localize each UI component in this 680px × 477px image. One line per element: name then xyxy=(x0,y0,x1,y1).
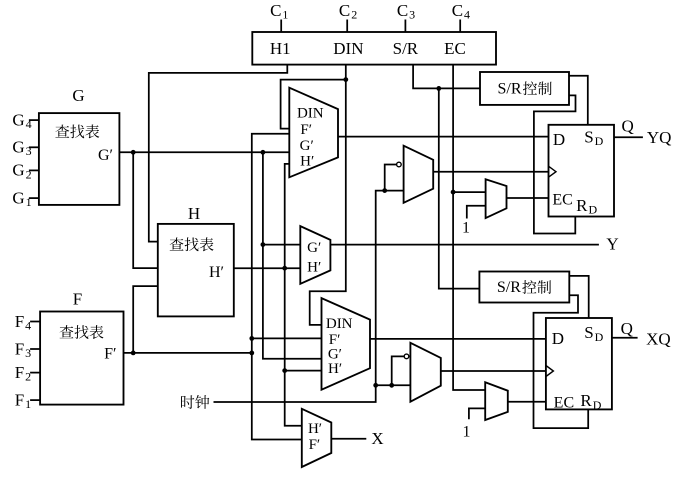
svg-text:S: S xyxy=(584,323,593,342)
svg-text:H′: H′ xyxy=(307,259,321,275)
svg-text:1: 1 xyxy=(26,195,32,209)
junction clock lower xyxy=(373,383,378,388)
mux M7 EC upper xyxy=(486,179,507,218)
wire C1 stem xyxy=(280,20,282,33)
svg-text:H: H xyxy=(188,204,200,223)
lookup table H xyxy=(158,224,234,317)
junction clock upper xyxy=(382,188,387,193)
svg-text:H′: H′ xyxy=(328,361,342,377)
wire M5 out xyxy=(433,171,548,173)
wire Fprime main xyxy=(124,352,252,354)
junction Fprime A xyxy=(131,351,136,356)
svg-text:Y: Y xyxy=(606,235,618,254)
svg-text:D: D xyxy=(552,329,564,348)
wire G2 tick xyxy=(29,169,39,171)
junction Gprime B xyxy=(261,150,266,155)
svg-text:G′: G′ xyxy=(98,147,113,164)
lookup table F xyxy=(40,312,123,405)
wire SD set lower xyxy=(569,276,588,318)
label F lookup cjk xyxy=(60,325,74,338)
svg-text:D: D xyxy=(553,130,565,149)
svg-text:D: D xyxy=(595,134,604,148)
label clock cjk xyxy=(181,395,194,409)
wire EC to upper mux xyxy=(453,191,486,193)
wire EC riser xyxy=(453,65,485,390)
junction Fprime B xyxy=(249,351,254,356)
junction Gprime A xyxy=(131,150,136,155)
svg-text:EC: EC xyxy=(554,394,574,411)
wire Hprime to lower mux xyxy=(285,370,322,372)
wire M8 one input xyxy=(469,408,485,419)
clock triangle FF2 xyxy=(546,366,554,377)
svg-text:C: C xyxy=(270,1,281,20)
wire M6 out xyxy=(441,370,546,372)
wire M1 out to D xyxy=(338,136,549,138)
svg-text:F: F xyxy=(15,363,24,382)
wire DIN riser xyxy=(310,65,346,325)
wire G4 tick xyxy=(29,119,39,121)
svg-text:R: R xyxy=(576,196,588,215)
wire DIN to top mux xyxy=(281,80,346,129)
svg-text:S/R: S/R xyxy=(497,80,521,97)
svg-text:DIN: DIN xyxy=(297,105,324,121)
svg-text:4: 4 xyxy=(26,117,32,131)
junction clock lower2 xyxy=(389,383,394,388)
svg-text:R: R xyxy=(580,391,592,410)
mux M6 clock lower xyxy=(410,343,440,402)
svg-text:F′: F′ xyxy=(104,346,116,363)
S/R control box lower xyxy=(479,272,569,303)
wire G3 tick xyxy=(29,146,39,148)
flip-flop FF1 YQ xyxy=(549,125,615,217)
wire F4 tick xyxy=(30,321,40,323)
junction Hprime B xyxy=(282,368,287,373)
junction Gprime C xyxy=(261,242,266,247)
wire C3 stem xyxy=(404,20,406,33)
wire RD reset upper xyxy=(534,95,576,233)
svg-text:G: G xyxy=(12,188,24,207)
svg-text:F: F xyxy=(15,390,24,409)
wire M3 out to D xyxy=(370,338,546,340)
svg-text:F: F xyxy=(15,312,24,331)
wire C2 stem xyxy=(346,20,348,33)
inverter bubble upper xyxy=(397,162,402,167)
wire Y out xyxy=(330,244,599,246)
wire F2 tick xyxy=(30,372,40,374)
junction S/R xyxy=(436,86,441,91)
wire clock lower inverted xyxy=(392,356,405,385)
svg-text:F: F xyxy=(73,289,82,308)
svg-text:H1: H1 xyxy=(270,39,291,58)
svg-text:S/R: S/R xyxy=(393,39,419,58)
svg-text:S/R: S/R xyxy=(497,279,521,296)
svg-text:D: D xyxy=(595,330,604,344)
wire M7 out xyxy=(507,197,549,199)
lookup table G xyxy=(39,113,120,205)
svg-text:3: 3 xyxy=(25,346,31,360)
wire Gprime to H table xyxy=(133,152,158,268)
wire SD set upper xyxy=(569,76,588,125)
wire FF1 Q out xyxy=(614,136,643,138)
wire Fprime riser xyxy=(252,134,302,440)
mux M8 EC lower xyxy=(485,382,508,420)
svg-text:2: 2 xyxy=(25,370,31,384)
svg-text:G: G xyxy=(12,110,24,129)
svg-text:G: G xyxy=(12,138,24,157)
inverter bubble lower xyxy=(404,354,409,359)
svg-text:C: C xyxy=(339,1,350,20)
input select box xyxy=(252,32,496,65)
wire Fprime to H table xyxy=(133,286,158,353)
wire clock lower input xyxy=(376,384,411,386)
junction Hprime A xyxy=(282,266,287,271)
mux M2 G/H for Y xyxy=(300,226,330,284)
svg-text:F: F xyxy=(15,339,24,358)
svg-text:EC: EC xyxy=(552,192,572,209)
svg-text:S: S xyxy=(584,128,593,147)
wire Hprime main xyxy=(234,267,300,269)
wire Gprime main xyxy=(119,151,289,153)
svg-text:1: 1 xyxy=(462,219,470,236)
svg-text:C: C xyxy=(452,1,463,20)
wire X out xyxy=(331,438,366,440)
wire M8 out xyxy=(508,401,546,403)
wire F3 tick xyxy=(30,348,40,350)
svg-text:DIN: DIN xyxy=(333,39,363,58)
svg-text:H′: H′ xyxy=(209,264,224,281)
junction Fprime C xyxy=(249,336,254,341)
S/R control box upper xyxy=(480,72,569,105)
svg-text:4: 4 xyxy=(25,318,31,332)
svg-text:G′: G′ xyxy=(307,240,321,256)
svg-text:D: D xyxy=(589,202,598,216)
svg-text:G: G xyxy=(72,86,84,105)
svg-text:H′: H′ xyxy=(300,154,314,170)
svg-text:1: 1 xyxy=(282,7,288,21)
svg-text:XQ: XQ xyxy=(646,329,671,348)
svg-text:3: 3 xyxy=(409,7,415,21)
wire M7 one input xyxy=(467,206,486,219)
svg-text:3: 3 xyxy=(26,144,32,158)
junction EC upper xyxy=(451,190,456,195)
wire H1 net xyxy=(149,65,287,242)
wire Gprime riser xyxy=(263,152,322,358)
svg-text:G: G xyxy=(12,161,24,180)
svg-text:F′: F′ xyxy=(309,437,321,453)
wire G1 tick xyxy=(29,197,39,199)
mux M4 H/F for X xyxy=(302,409,332,467)
wire Fprime to lower mux xyxy=(252,337,322,339)
wire C4 stem xyxy=(459,20,461,33)
svg-text:2: 2 xyxy=(351,7,357,21)
mux M5 clock upper xyxy=(404,146,434,203)
wire RD reset lower xyxy=(534,295,589,428)
label H lookup cjk xyxy=(170,237,184,250)
svg-text:D: D xyxy=(593,398,602,412)
svg-text:EC: EC xyxy=(444,39,466,58)
svg-text:C: C xyxy=(397,1,408,20)
wire Gprime to Y mux xyxy=(263,244,300,246)
mux M1 DIN/F/G/H upper xyxy=(289,88,338,178)
svg-text:Q: Q xyxy=(622,116,634,135)
svg-text:2: 2 xyxy=(26,167,32,181)
svg-text:G′: G′ xyxy=(300,138,314,154)
svg-text:4: 4 xyxy=(464,7,470,21)
wire S/R to control xyxy=(413,65,480,89)
wire S/R riser xyxy=(439,88,480,288)
svg-text:DIN: DIN xyxy=(326,316,353,332)
svg-text:H′: H′ xyxy=(308,421,322,437)
wire Hprime riser xyxy=(285,164,302,426)
svg-text:F′: F′ xyxy=(300,122,312,138)
junction DIN top xyxy=(343,77,348,82)
clock triangle FF1 xyxy=(549,166,557,177)
mux M3 DIN/F/G/H lower xyxy=(322,298,371,390)
svg-text:1: 1 xyxy=(463,423,471,440)
wire clock upper inverted xyxy=(385,165,397,191)
label G lookup cjk xyxy=(55,125,69,138)
wire FF2 Q out xyxy=(612,337,638,339)
wire F1 tick xyxy=(30,399,40,401)
svg-text:1: 1 xyxy=(25,397,31,411)
svg-text:Q: Q xyxy=(621,319,633,338)
flip-flop FF2 XQ xyxy=(546,318,612,409)
wire clock main xyxy=(214,191,404,402)
svg-text:X: X xyxy=(371,429,383,448)
svg-text:YQ: YQ xyxy=(647,128,672,147)
